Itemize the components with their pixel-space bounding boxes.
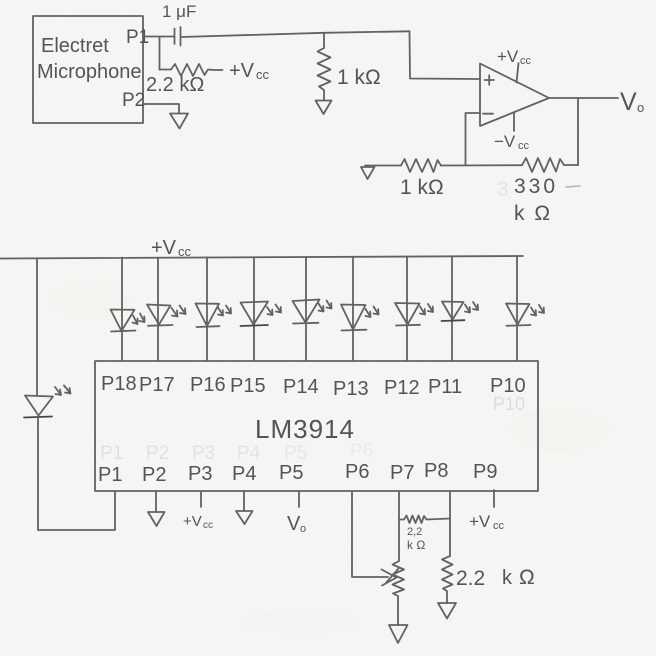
LED D9 [506, 304, 544, 326]
LED D10 left [24, 386, 71, 418]
svg-text:1 kΩ: 1 kΩ [400, 176, 444, 199]
svg-text:P3: P3 [188, 463, 212, 485]
label +Vcc mid [229, 60, 270, 82]
wire output feedback drop [577, 98, 579, 165]
wire P1 to capacitor [143, 36, 174, 38]
svg-text:2.2: 2.2 [456, 567, 485, 590]
svg-text:P4: P4 [237, 443, 261, 464]
svg-text:P1: P1 [98, 464, 122, 486]
svg-text:cc: cc [256, 67, 270, 82]
resistor R3 1k feedback [401, 159, 441, 172]
svg-text:k: k [502, 567, 513, 589]
svg-text:−V: −V [494, 132, 516, 151]
wire rail to P18 [121, 258, 123, 362]
label Vo P5 [287, 513, 306, 535]
label +Vcc P9 [469, 512, 505, 532]
svg-text:P2: P2 [122, 90, 145, 111]
ghost erased digit right [566, 186, 580, 187]
wire op-amp output [549, 97, 618, 99]
label +Vcc op-amp [497, 47, 532, 67]
svg-text:1 kΩ: 1 kΩ [337, 66, 381, 89]
potentiometer VR1 [393, 561, 405, 625]
wire P4 stub [243, 492, 245, 511]
ground R2 [316, 101, 332, 115]
label -Vcc op-amp [494, 132, 530, 152]
resistor R6 2.2k vertical [442, 556, 453, 603]
svg-text:P3: P3 [192, 443, 215, 464]
wire node P1 down to R1 [159, 37, 161, 70]
svg-text:V: V [620, 88, 637, 116]
svg-text:P13: P13 [333, 378, 369, 400]
ghost text erased pins [100, 441, 373, 464]
svg-text:P5: P5 [284, 443, 307, 464]
svg-text:k Ω: k Ω [514, 202, 552, 225]
svg-text:+V: +V [151, 237, 177, 259]
electret microphone box MIC [33, 16, 143, 123]
svg-text:P12: P12 [384, 377, 420, 399]
wire rail to P15 [253, 257, 255, 361]
wire step down to plus input [410, 31, 481, 79]
svg-text:P8: P8 [424, 460, 448, 482]
op-amp +Vcc stub [517, 63, 519, 83]
wire P3 stub [200, 492, 202, 507]
wire LED D10 to P1 [38, 418, 115, 531]
svg-text:Ω: Ω [519, 566, 535, 589]
LED D2 [147, 305, 186, 326]
LED D5 [293, 300, 332, 324]
svg-text:P7: P7 [390, 462, 414, 484]
resistor R1 2.2k [160, 64, 223, 76]
wire minus input [466, 113, 481, 166]
svg-text:+V: +V [469, 512, 491, 531]
wire R4 up to output [564, 164, 578, 166]
wire P9 stub [493, 490, 495, 507]
resistor R2 1k vertical [318, 33, 331, 101]
ground R6 [438, 603, 456, 619]
svg-text:cc: cc [493, 520, 505, 532]
LED D8 [442, 302, 479, 322]
svg-text:P6: P6 [350, 441, 373, 462]
label +Vcc P3 [183, 513, 213, 531]
svg-text:o: o [300, 523, 306, 535]
svg-text:P1: P1 [100, 443, 123, 464]
svg-text:2,2: 2,2 [407, 526, 422, 538]
svg-text:1 μF: 1 μF [162, 2, 196, 21]
resistor R5 2.2k small [399, 516, 450, 524]
wire P7 stub down [398, 492, 400, 561]
svg-text:P11: P11 [428, 376, 462, 398]
wire rail to P14 [305, 257, 307, 361]
svg-text:P1: P1 [126, 27, 149, 48]
wire rail to P11 [451, 256, 453, 361]
label Vo output [620, 88, 644, 116]
svg-text:330: 330 [514, 175, 558, 198]
svg-text:+V: +V [183, 513, 202, 530]
svg-text:2.2 kΩ: 2.2 kΩ [146, 74, 204, 96]
wire ground to R3 [365, 165, 401, 167]
wire R3 to node to R4 [441, 164, 522, 166]
ground P2 [148, 512, 165, 526]
svg-text:P17: P17 [139, 374, 175, 396]
ground feedback [361, 167, 375, 179]
wire P2 to ground [143, 104, 179, 113]
op-amp U1 [480, 64, 549, 127]
resistor R4 330k [522, 158, 564, 172]
svg-text:P14: P14 [283, 376, 319, 398]
ground VR1 [389, 625, 408, 643]
wire rail to P10 [516, 256, 518, 361]
svg-text:P4: P4 [232, 463, 256, 485]
capacitor C1 [175, 27, 181, 46]
wire +Vcc rail [0, 256, 523, 259]
label +Vcc rail [151, 237, 192, 259]
wire rail to P12 [406, 257, 408, 361]
LED D3 [196, 304, 232, 328]
LED D6 [341, 305, 379, 331]
svg-text:k Ω: k Ω [407, 538, 425, 552]
wire rail to P13 [352, 257, 354, 361]
wire rail to P17 [157, 258, 159, 362]
svg-text:cc: cc [520, 55, 532, 67]
svg-text:P2: P2 [146, 443, 169, 464]
svg-text:P16: P16 [190, 374, 226, 396]
wire P8 stub down [449, 492, 451, 556]
svg-text:+V: +V [229, 60, 255, 82]
svg-text:+V: +V [497, 47, 519, 66]
svg-text:P10: P10 [493, 394, 525, 414]
LED D1 [111, 310, 145, 332]
svg-text:P2: P2 [142, 464, 166, 486]
svg-text:cc: cc [203, 520, 213, 531]
svg-text:P10: P10 [490, 375, 526, 397]
IC U2 LM3914 box [95, 361, 538, 491]
svg-text:V: V [287, 513, 301, 535]
svg-text:P18: P18 [101, 373, 137, 395]
wire P6 down to wiper [352, 492, 388, 577]
wire P5 stub [298, 492, 300, 507]
ground P4 [236, 511, 253, 524]
svg-text:P5: P5 [279, 462, 303, 484]
wire capacitor to op-amp corner [181, 31, 410, 37]
svg-text:cc: cc [518, 140, 530, 152]
svg-text:Electret: Electret [41, 35, 109, 57]
svg-text:P9: P9 [473, 461, 497, 483]
label 2.2 kOhm right [456, 566, 535, 590]
LED D4 [241, 302, 282, 327]
svg-text:o: o [637, 100, 644, 115]
svg-text:P6: P6 [345, 461, 369, 483]
LED D7 [395, 303, 433, 326]
ground P2 mic [170, 114, 188, 129]
wiper arrow potentiometer [382, 569, 399, 586]
svg-text:Microphone: Microphone [37, 61, 142, 83]
svg-text:P15: P15 [230, 375, 266, 397]
op-amp -Vcc stub [513, 113, 515, 132]
svg-text:3: 3 [497, 178, 509, 201]
wire rail to LED D10 left [36, 259, 38, 396]
wire P2 stub [155, 492, 157, 512]
wire rail to P16 [206, 257, 208, 361]
svg-text:LM3914: LM3914 [255, 414, 355, 444]
